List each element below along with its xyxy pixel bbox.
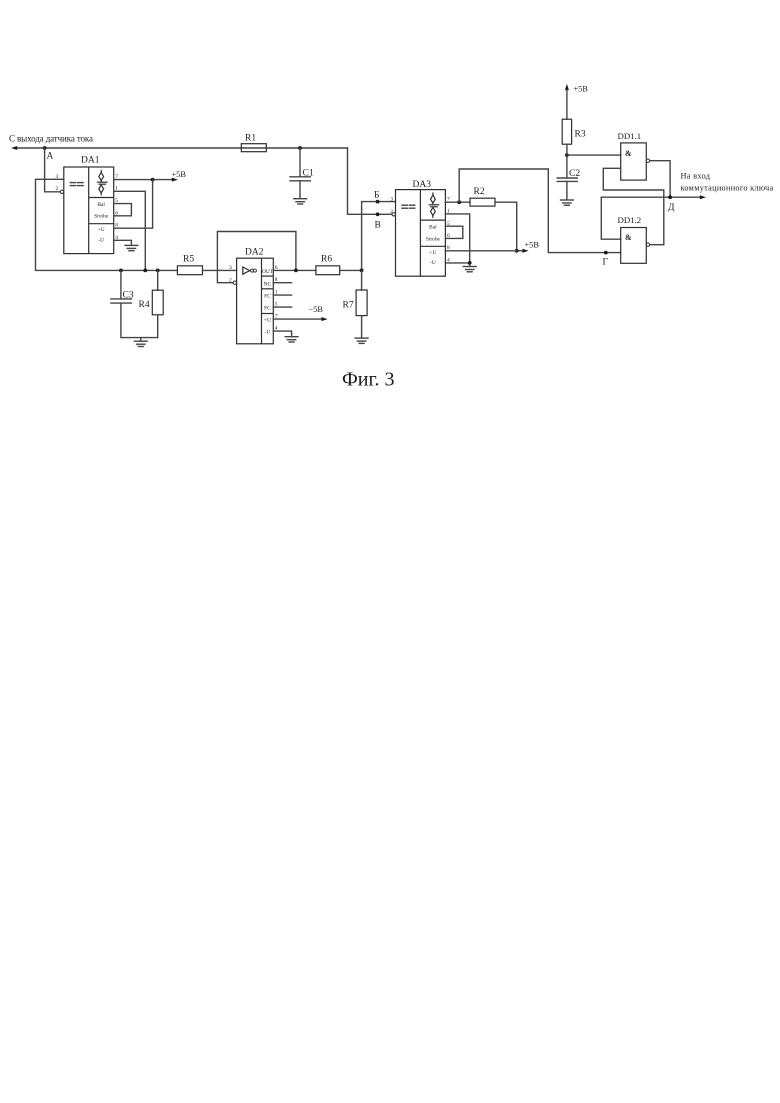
- svg-text:+U: +U: [429, 250, 436, 256]
- DA3 output-stage diamonds symbol: [429, 192, 440, 218]
- svg-text:-U: -U: [430, 260, 436, 266]
- ground (DA3 pin4): [463, 267, 476, 272]
- svg-text:Bal: Bal: [429, 224, 437, 230]
- svg-text:C3: C3: [123, 290, 134, 300]
- svg-text:+5В: +5В: [525, 241, 540, 250]
- svg-text:-U: -U: [98, 238, 104, 244]
- svg-text:R2: R2: [474, 187, 485, 197]
- resistor R5: [177, 266, 202, 275]
- node: DA2 out junction dot: [294, 269, 298, 273]
- svg-text:+5В: +5В: [172, 170, 187, 179]
- svg-text:R5: R5: [183, 255, 194, 265]
- node: R6/R7 junction dot: [360, 269, 364, 273]
- ground (DA1 pin4): [125, 245, 138, 250]
- wire: Д to DD1.2 input1: [601, 197, 620, 239]
- svg-text:NC: NC: [264, 281, 272, 287]
- resistor R2: [470, 198, 495, 206]
- svg-text:2: 2: [56, 186, 59, 192]
- node: bus junction dot C3: [119, 269, 123, 273]
- arrow: left output arrowhead: [11, 146, 17, 150]
- svg-text:Г: Г: [603, 258, 609, 268]
- svg-text:C1: C1: [303, 168, 314, 178]
- svg-text:С выхода датчика тока: С выхода датчика тока: [9, 134, 93, 144]
- arrow: output arrowhead: [700, 195, 706, 199]
- resistor R6: [316, 266, 340, 275]
- svg-text:DD1.2: DD1.2: [618, 215, 642, 225]
- wire: R3 to node: [566, 144, 568, 155]
- wire: +5V to R3: [566, 90, 568, 119]
- junction dot on +5V line: [151, 178, 155, 182]
- capacitor C1: [290, 148, 314, 199]
- svg-text:R6: R6: [321, 255, 332, 265]
- svg-text:−5В: −5В: [309, 305, 324, 314]
- svg-text:DA3: DA3: [413, 180, 432, 190]
- DA2 internal labels: [262, 269, 274, 335]
- wire: R2 to +5V node: [495, 202, 523, 251]
- resistor R7: [343, 270, 368, 338]
- wire: DD1.1 output to node Д: [650, 161, 670, 198]
- svg-text:-U: -U: [265, 329, 271, 335]
- node: pin7 junction dot: [457, 200, 461, 204]
- resistor R3: [562, 119, 571, 144]
- node Г junction dot: [604, 251, 608, 255]
- svg-text:DA1: DA1: [81, 156, 100, 166]
- ground (C2): [561, 200, 574, 205]
- wire: DA2 out to R6: [273, 269, 316, 271]
- svg-text:8: 8: [115, 223, 118, 229]
- DA2 amplifier symbol: [243, 267, 257, 274]
- svg-text:А: А: [47, 152, 54, 162]
- resistor R1: [241, 144, 266, 152]
- svg-text:FC: FC: [264, 305, 271, 311]
- svg-text:DD1.1: DD1.1: [618, 131, 642, 141]
- svg-text:&: &: [625, 149, 632, 158]
- node: pin4 junction dot: [468, 261, 472, 265]
- wire: Г path from pin7 node to DD1.2 input: [459, 169, 621, 253]
- wire: A to DA1 pin2: [45, 148, 61, 192]
- node: bus junction dot R4: [156, 269, 160, 273]
- wire: R1/C1 node down to node В (DA3 pin2): [348, 148, 393, 214]
- wire: DD1.2 output to cross-couple vertical: [650, 244, 664, 246]
- node Д junction dot: [668, 195, 672, 199]
- wire: node to DD1.1 input1: [567, 154, 621, 156]
- ground (DA2 pin4): [285, 337, 298, 342]
- arrow +5V (DA3): [522, 249, 528, 253]
- node Б junction dot: [376, 200, 380, 204]
- arrow +5V (DA1): [172, 178, 178, 182]
- ground (C1): [294, 199, 307, 204]
- DA1 comparator symbol ==: [70, 183, 83, 186]
- arrow -5V (DA2): [321, 317, 327, 321]
- DD1.2 output bubble: [646, 243, 649, 246]
- arrow +5V (R3 top): [565, 84, 569, 90]
- node: +5V junction dot: [515, 249, 519, 253]
- DA1 output-stage diamonds symbol: [97, 170, 108, 196]
- wire: DD1.1 input2 cross-couple from DD1.2 output: [603, 168, 664, 244]
- DA3 comparator symbol ==: [402, 205, 415, 208]
- svg-text:Д: Д: [668, 203, 675, 213]
- svg-text:3: 3: [229, 265, 232, 271]
- svg-text:R3: R3: [575, 130, 586, 140]
- wire: DA3 pin1 down to pin4/ground: [445, 214, 469, 263]
- svg-text:C2: C2: [569, 169, 580, 179]
- wire: +5V dot down to pin8: [114, 180, 153, 229]
- ground (R7): [355, 338, 368, 343]
- capacitor C2: [557, 155, 580, 200]
- capacitor C3: [111, 270, 158, 337]
- svg-text:Bal: Bal: [97, 202, 105, 208]
- svg-text:DA2: DA2: [245, 248, 264, 258]
- svg-text:+U: +U: [264, 317, 271, 323]
- svg-text:Strobe: Strobe: [94, 214, 109, 220]
- svg-text:FC: FC: [264, 293, 271, 299]
- svg-text:+5В: +5В: [574, 85, 589, 94]
- ground (C3/R4): [134, 338, 147, 347]
- node: R3/C2 junction dot: [565, 153, 569, 157]
- svg-text:Б: Б: [374, 191, 379, 201]
- wire: DA1 pin3 to bottom feedback bus: [36, 179, 178, 270]
- wire: DA3 pin7 to R2: [445, 201, 470, 203]
- wire: DA2 feedback loop pin2 to output: [217, 232, 296, 283]
- wire: DA1 pin7 to +5V: [114, 179, 172, 181]
- DA1 internal labels: [94, 202, 109, 244]
- wire: top bus A: [16, 147, 348, 149]
- wire: node Д line to output arrow: [601, 196, 700, 198]
- op-amp buffer DA2: [237, 248, 274, 344]
- wire: R6/R7 node up to node Б (DA3 pin1): [362, 202, 396, 271]
- node A junction dot: [43, 146, 47, 150]
- svg-text:Фиг. 3: Фиг. 3: [342, 369, 394, 391]
- NAND gate DD1.1: [618, 131, 647, 180]
- svg-text:R7: R7: [343, 301, 354, 311]
- node C1 junction dot: [298, 146, 302, 150]
- wire: DA1 pin1 output down to bus: [114, 191, 146, 270]
- svg-text:Strobe: Strobe: [426, 236, 441, 242]
- svg-text:OUT: OUT: [262, 269, 274, 275]
- wire: R6 to R7 node: [340, 269, 362, 271]
- DD1.1 output bubble: [646, 159, 649, 162]
- svg-text:коммутационного ключа: коммутационного ключа: [681, 184, 774, 193]
- svg-text:+U: +U: [98, 227, 105, 233]
- node: bus junction dot DA1 out: [143, 269, 147, 273]
- wire: DA1 pin4 to ground: [114, 240, 132, 245]
- wire: R5 to DA2 pin3: [203, 269, 237, 271]
- svg-text:R4: R4: [139, 300, 150, 310]
- op-amp comparator DA3: [396, 180, 446, 276]
- wire: DA3 pin8 to +5V node: [445, 250, 516, 252]
- svg-text:R1: R1: [245, 134, 256, 144]
- wire: DA3 pin4 to ground: [445, 263, 469, 266]
- NAND gate DD1.2: [618, 215, 647, 263]
- node В junction dot: [376, 212, 380, 216]
- svg-text:3: 3: [390, 196, 393, 202]
- svg-text:&: &: [625, 233, 632, 242]
- svg-text:На вход: На вход: [681, 172, 711, 181]
- op-amp comparator DA1: [64, 156, 114, 254]
- DA3 internal labels: [426, 224, 441, 266]
- svg-text:В: В: [375, 221, 381, 231]
- resistor R4: [139, 270, 164, 337]
